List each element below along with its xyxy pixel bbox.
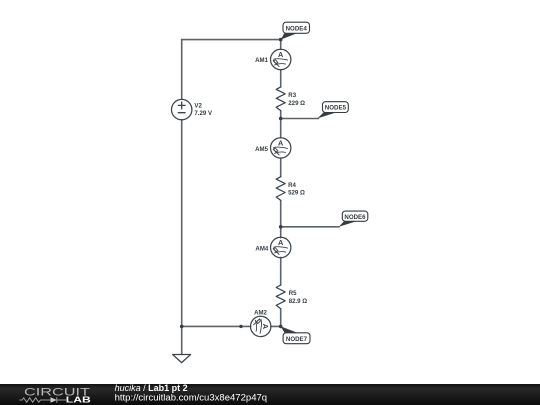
svg-text:R3: R3 [288,92,296,99]
wire R5 to node7 [280,309,282,327]
svg-text:R4: R4 [288,182,296,189]
svg-text:A: A [261,324,270,330]
node flag NODE7 [281,326,310,343]
wire AM5 to R4 [280,158,282,177]
ammeter AM4 [271,237,291,257]
node flag NODE5 [318,102,349,119]
wire node5 stub [281,118,319,120]
svg-text:82.9 Ω: 82.9 Ω [289,298,308,305]
wire node4 to AM1 [280,40,282,50]
resistor R4 [276,177,285,201]
svg-text:A: A [278,238,284,247]
voltage source V2 [172,99,192,119]
svg-text:AM1: AM1 [255,57,268,64]
svg-text:NODE4: NODE4 [286,25,308,32]
ammeter A letter AM2 [261,324,270,330]
svg-text:AM2: AM2 [254,309,267,316]
label V2 value [194,102,213,117]
svg-text:A: A [278,139,284,148]
svg-text:hucika / Lab1 pt 2: hucika / Lab1 pt 2 [115,383,188,393]
wire ground stub [181,326,183,354]
node junction dot NODE7 [279,325,283,329]
svg-text:7.29 V: 7.29 V [194,110,213,117]
node terminal dot AM2 [239,325,242,328]
ammeter AM5 [271,138,291,158]
resistor R5 [276,285,285,309]
node flag NODE6 [339,211,368,227]
svg-text:NODE6: NODE6 [344,214,366,221]
node junction dot top [279,38,283,42]
node junction dot ground [180,325,184,329]
svg-text:AM4: AM4 [255,245,268,252]
wire R4 to AM4 [280,200,282,237]
wire left vertical upper [181,40,183,100]
svg-text:229 Ω: 229 Ω [288,100,305,107]
label R3 value [288,92,305,107]
svg-text:A: A [278,50,284,59]
wire AM2 to node [271,325,281,327]
label R5 value [289,290,308,305]
node flag NODE4 [281,22,310,39]
wire left vertical lower [181,120,183,327]
label R4 value [288,182,305,197]
svg-text:LAB: LAB [66,394,91,404]
resistor R3 [276,87,285,111]
svg-text:529 Ω: 529 Ω [288,190,305,197]
svg-text:V2: V2 [194,102,202,109]
node junction dot NODE5 [279,117,283,121]
svg-text:http://circuitlab.com/cu3x8e47: http://circuitlab.com/cu3x8e472p47q [115,392,268,402]
ammeter AM1 [271,49,291,69]
wire AM1 to R3 [280,70,282,87]
wire node6 stub [281,226,339,228]
wire top horizontal [182,39,281,41]
footer [0,383,540,405]
ammeter AM2 [251,316,271,336]
svg-text:NODE5: NODE5 [325,105,347,112]
ground [173,355,191,363]
svg-text:NODE7: NODE7 [286,336,308,343]
node junction dot NODE6 [279,225,283,229]
svg-text:AM5: AM5 [255,146,268,153]
svg-text:R5: R5 [289,290,297,297]
wire bottom horizontal left [182,325,251,327]
wire AM4 to R5 [280,257,282,285]
wire R3 to AM5 [280,111,282,138]
